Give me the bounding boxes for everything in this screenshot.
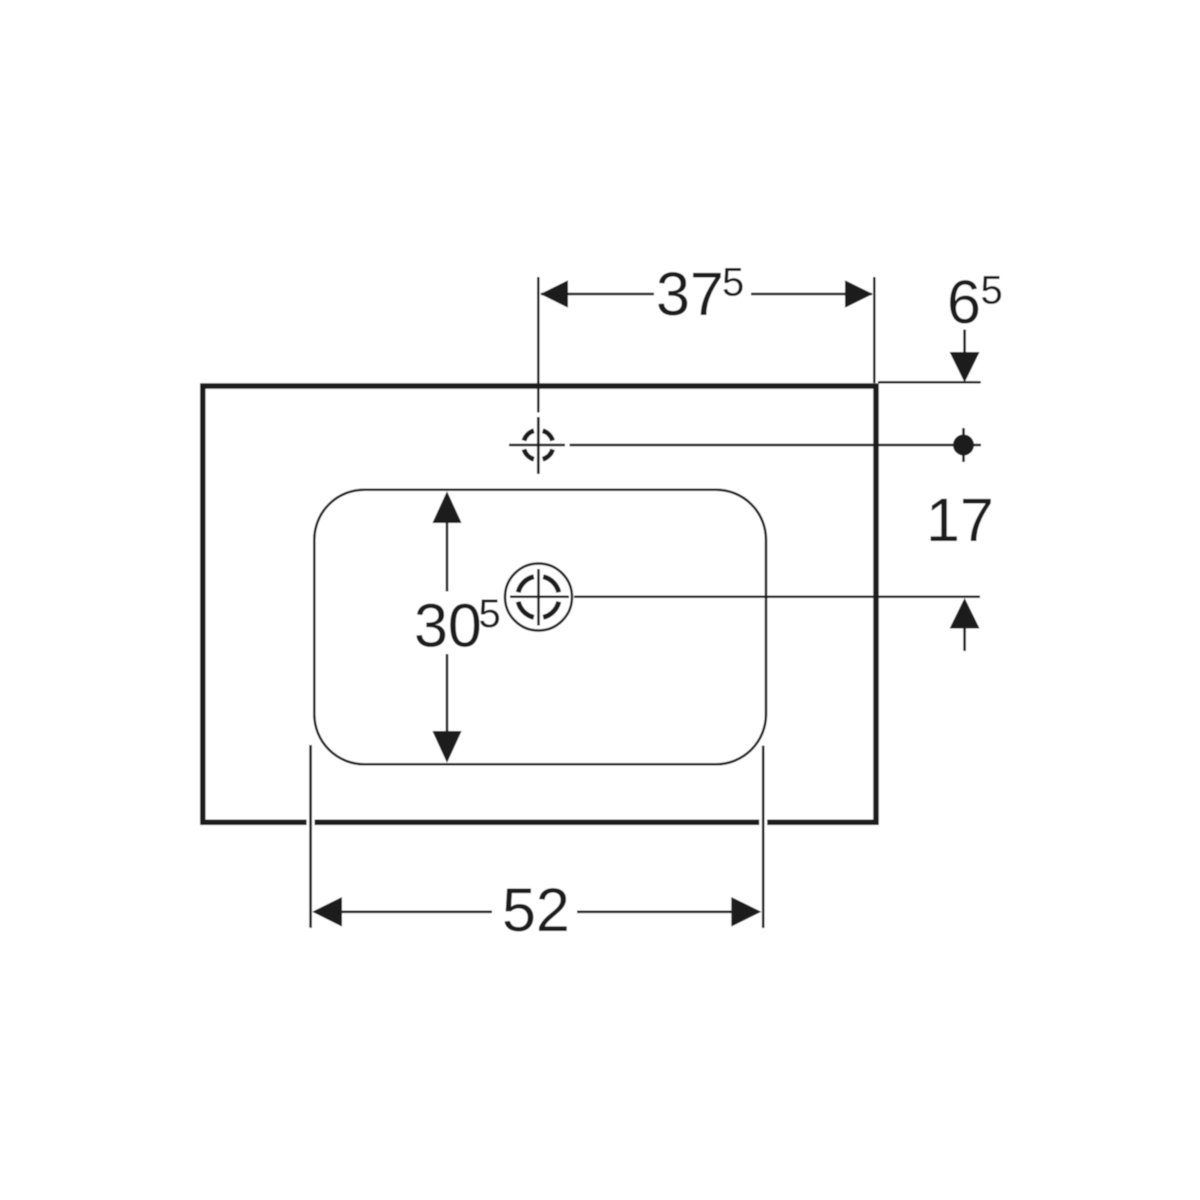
svg-text:6: 6 [947, 268, 981, 336]
svg-text:5: 5 [722, 261, 744, 305]
svg-text:30: 30 [414, 591, 482, 659]
svg-text:17: 17 [926, 486, 994, 554]
svg-text:5: 5 [981, 269, 1003, 313]
svg-text:5: 5 [479, 592, 501, 636]
svg-text:52: 52 [502, 876, 570, 944]
svg-text:37: 37 [656, 260, 724, 328]
